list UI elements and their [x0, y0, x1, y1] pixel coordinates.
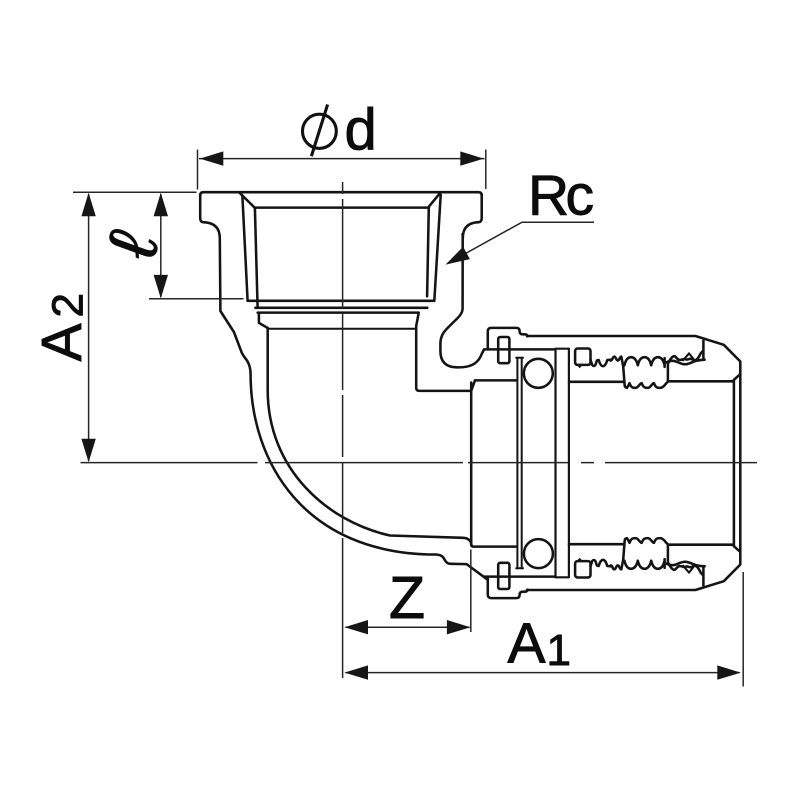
arrowhead phi-d left — [200, 151, 224, 165]
extension line l bottom — [149, 298, 244, 300]
bore line top left — [569, 381, 623, 384]
thread mouth chamfer right — [429, 193, 440, 207]
thread root line left — [255, 208, 258, 307]
corrugation end edge bottom — [667, 545, 670, 564]
bore line bottom right — [668, 543, 733, 546]
connector collar bottom edge — [471, 545, 516, 547]
arrowhead A1 left — [345, 665, 369, 679]
O-ring section top — [524, 359, 553, 388]
extension line Z right — [470, 550, 472, 633]
grab ring serration lead top — [591, 360, 612, 367]
socket left flange and elbow outer wall — [200, 195, 488, 580]
grab block top — [575, 349, 590, 365]
grab ring serrations and block edge top — [611, 357, 627, 388]
extension line A2 bottom — [81, 462, 84, 464]
thread mouth flat — [255, 206, 429, 209]
dimension line l — [160, 194, 162, 297]
dimension line phi-d — [199, 158, 485, 160]
bore line bottom left — [569, 543, 623, 546]
leader line Rc — [448, 222, 595, 263]
gripper washer lines — [517, 358, 521, 569]
tube stop face — [733, 380, 736, 546]
thread root line right — [427, 207, 429, 296]
connector collar top edge — [475, 379, 517, 382]
thread bottom line (root) — [255, 307, 427, 310]
svg-text:Rc: Rc — [528, 163, 594, 227]
extension line A1 right — [742, 572, 744, 687]
connector collar step chamfer — [471, 380, 475, 390]
bore line top right — [668, 380, 733, 383]
dimension line A2 — [88, 194, 90, 461]
clip bracket top — [488, 328, 528, 350]
bore step right and spigot top line — [416, 313, 471, 391]
label phi-d: diameter symbol — [303, 105, 337, 157]
socket right flange wall — [463, 195, 482, 239]
clip pin top — [498, 337, 509, 363]
connector collar left edge — [470, 383, 473, 546]
arrowhead Z right — [447, 620, 471, 634]
extension line phi-d left — [197, 150, 199, 190]
corrugated block crest edge bottom — [624, 559, 664, 569]
arrowhead phi-d right — [460, 151, 484, 165]
arrowhead A2 top — [81, 193, 95, 217]
corrugation end edge top — [667, 362, 670, 381]
arrowhead A2 bottom — [81, 439, 95, 463]
bore step left — [259, 313, 268, 328]
grab ring right cluster bottom — [668, 563, 703, 576]
thread crest line right — [434, 195, 440, 300]
thread runout line — [258, 311, 419, 314]
svg-text:1: 1 — [547, 626, 571, 675]
arrowhead l bottom — [154, 275, 168, 299]
nut body outer shell — [527, 336, 740, 590]
corrugated block root edge bottom — [627, 538, 668, 544]
thread mouth chamfer left — [240, 193, 255, 208]
thread bottom line (crest) — [248, 300, 435, 303]
corrugated block root edge top — [627, 382, 668, 388]
grab block tooth top — [577, 365, 583, 368]
svg-text:A: A — [30, 323, 94, 361]
svg-text:2: 2 — [44, 293, 93, 317]
grab block bottom — [575, 561, 590, 577]
elbow neck J-profile to connector shoulder — [440, 236, 484, 367]
clip pin bottom — [498, 563, 509, 589]
grab block tooth bottom — [577, 558, 583, 561]
grab ring right cluster top — [668, 351, 703, 364]
svg-text:Z: Z — [389, 565, 425, 631]
tube stop chamfer top — [734, 374, 740, 379]
dimension line Z — [346, 626, 470, 628]
bore wall left and elbow inner arc — [268, 328, 472, 545]
tube stop chamfer bottom — [734, 546, 740, 551]
arrowhead Z left — [345, 620, 369, 634]
clip bracket bottom — [488, 577, 528, 599]
extension line top face (A2/l) — [73, 191, 197, 193]
extension line phi-d right — [485, 150, 487, 190]
grab ring serration lead bottom — [591, 560, 612, 567]
spacer washer — [555, 349, 569, 578]
O-ring section bottom — [524, 539, 553, 568]
grab ring serrations and block edge bottom — [611, 538, 627, 569]
bore shoulder line — [267, 328, 416, 330]
svg-text:A: A — [508, 611, 546, 675]
nut inner shoulder top — [484, 348, 555, 351]
centerline horizontal (outlet axis) — [84, 462, 758, 464]
centerline vertical (socket axis) — [342, 182, 344, 678]
dimension line A1 — [346, 672, 740, 674]
svg-text:d: d — [345, 98, 377, 163]
thread crest line left — [242, 196, 247, 300]
gripper washer caps — [516, 358, 523, 569]
corrugated block crest edge top — [624, 357, 664, 367]
arrowhead l top — [154, 193, 168, 217]
arrowhead A1 right — [717, 665, 741, 679]
arrowhead Rc leader — [446, 247, 470, 265]
nut inner shoulder bottom — [484, 575, 555, 578]
socket top face — [200, 192, 482, 195]
